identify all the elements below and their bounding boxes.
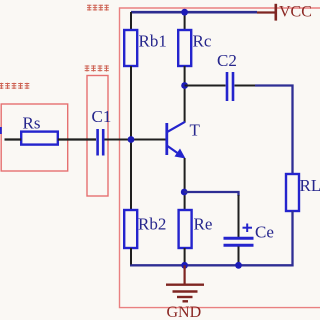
annotation box: signal source (around Rs) <box>1 104 68 171</box>
wire: Rb1 bottom to base node to Rb2 top <box>130 66 132 210</box>
wire: base wire from C1 to transistor <box>105 139 167 141</box>
wire: emitter down to Re <box>184 158 186 210</box>
wire: rail to Rc top <box>184 12 186 30</box>
wire: Rs to C1 <box>58 138 96 140</box>
capacitor C1 <box>98 129 104 156</box>
svg-text:Rc: Rc <box>193 32 212 51</box>
wire: collector to C2 <box>185 85 226 87</box>
wire: C2 output stub <box>235 85 257 87</box>
capacitor Ce (polarized) <box>224 238 254 245</box>
resistor Re <box>179 210 192 248</box>
VCC rail (navy) <box>131 11 257 14</box>
VCC feed wire (dark red) <box>257 11 275 13</box>
svg-text:Ce: Ce <box>255 223 274 242</box>
wire: rail to Rb1 top <box>130 12 132 30</box>
annotation label: 电路网络 <box>87 5 109 11</box>
annotation label: 电容耦合 <box>85 65 109 71</box>
svg-text:Rs: Rs <box>23 114 41 133</box>
annotation label: 信号源输入 <box>0 83 29 89</box>
node: Ce bottom junction <box>235 262 242 269</box>
transistor emitter arrow <box>175 149 186 159</box>
resistor RL <box>286 174 299 211</box>
source resistor Rs <box>21 132 58 145</box>
annotation box: capacitive coupling (around C1) <box>87 76 108 197</box>
junction on rail above Rc <box>181 9 188 16</box>
svg-text:C2: C2 <box>217 51 237 70</box>
svg-text:C1: C1 <box>92 107 112 126</box>
ground symbol <box>166 265 204 301</box>
wire: RL bottom to ground rail <box>130 211 293 265</box>
svg-text:T: T <box>190 121 201 140</box>
input terminal fragment at edge <box>0 127 2 134</box>
node: base junction <box>128 136 135 143</box>
capacitor C2 <box>227 72 233 101</box>
svg-text:VCC: VCC <box>279 4 312 21</box>
node: emitter junction <box>181 189 188 196</box>
VCC bar symbol <box>274 4 277 21</box>
wire: C2 to RL top corner <box>255 86 293 175</box>
resistor Rb2 <box>124 210 137 248</box>
wire: Ce bottom <box>238 247 240 266</box>
resistor Rb1 <box>124 30 137 66</box>
svg-text:Re: Re <box>194 215 213 234</box>
Ce plus sign <box>243 224 253 233</box>
wire: input stub left of Rs <box>5 138 22 140</box>
annotation box: circuit network (big red box) <box>120 8 320 308</box>
svg-text:RL: RL <box>300 176 320 195</box>
svg-text:Rb1: Rb1 <box>139 32 167 51</box>
wire: Rb2 bottom to ground rail <box>130 248 132 265</box>
wire: emitter node to Ce corner <box>184 192 238 196</box>
transistor T <box>167 122 185 156</box>
wire: Rc bottom to collector <box>184 66 186 123</box>
svg-text:Rb2: Rb2 <box>138 215 166 234</box>
svg-text:GND: GND <box>167 304 202 320</box>
node: collector junction <box>181 82 188 89</box>
resistor Rc <box>178 30 191 66</box>
node: Re bottom junction <box>181 262 188 269</box>
wire: down to Ce top plate <box>238 195 240 237</box>
wire: Re bottom to ground rail <box>184 248 186 265</box>
